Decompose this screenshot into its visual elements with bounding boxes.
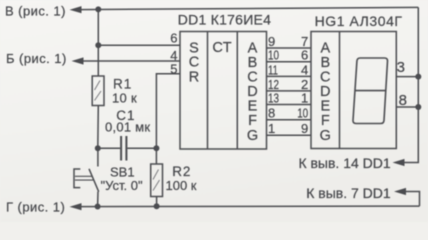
svg-text:R2: R2 [172, 164, 191, 179]
wire G bus DD1.1 to HG1.9 [267, 134, 312, 136]
pin A of HG1 [320, 40, 330, 56]
node junction R2 on G-bus [154, 203, 160, 209]
svg-text:В (рис. 1): В (рис. 1) [5, 3, 66, 18]
svg-text:CT: CT [212, 40, 231, 56]
node junction S-row [95, 42, 101, 48]
pin B of HG1 [320, 55, 330, 71]
arrow to K vyv 14 DD1 [393, 159, 405, 166]
svg-text:E: E [248, 99, 258, 115]
svg-text:Г (рис. 1): Г (рис. 1) [6, 200, 65, 215]
svg-text:7: 7 [301, 34, 308, 49]
label К выв. 7 DD1 [306, 185, 391, 201]
arrow to Г (ris.1) [70, 203, 82, 210]
wire S-row to DD1 pin 6 [98, 44, 180, 46]
value 0,01 мк [105, 120, 150, 135]
pin 5 of DD1 [170, 61, 177, 76]
svg-text:E: E [320, 99, 330, 115]
pin 10 of HG1 [297, 106, 308, 121]
wire right rail down to K vyv 14 [404, 7, 418, 162]
pin 6 of HG1 [301, 48, 308, 63]
svg-text:C: C [189, 54, 199, 70]
pin 9 of DD1 [268, 34, 275, 49]
wire HG1 pin 8 to rail [397, 106, 419, 108]
svg-text:1: 1 [268, 121, 275, 136]
pin 2 of HG1 [301, 77, 308, 92]
wire B bus DD1.10 to HG1.6 [267, 61, 312, 63]
resistor R2 [151, 164, 163, 197]
pin C of DD1 [247, 70, 257, 86]
value "Уст. 0" [101, 178, 143, 193]
svg-text:5: 5 [170, 61, 177, 76]
node junction top at x98 [95, 6, 101, 12]
svg-text:F: F [248, 113, 257, 129]
svg-text:HG1 АЛ304Г: HG1 АЛ304Г [315, 13, 403, 29]
pin 8 of DD1 [268, 106, 275, 121]
pin 1 of DD1 [268, 121, 275, 136]
pin G of DD1 [247, 128, 258, 144]
svg-text:К выв. 14 DD1: К выв. 14 DD1 [298, 155, 390, 171]
svg-text:A: A [248, 40, 258, 56]
wire C1 left lead [98, 147, 120, 149]
label DD1 К176ИЕ4 [178, 12, 271, 28]
pin F of HG1 [321, 113, 330, 129]
node label Г (рис. 1) [6, 200, 65, 215]
svg-text:G: G [247, 128, 258, 144]
wire vertical x98 down to R1 [97, 45, 99, 76]
pin 8 of HG1 [399, 92, 407, 109]
arrow to K vyv 7 DD1 [394, 188, 406, 195]
svg-text:8: 8 [399, 92, 407, 109]
svg-text:10: 10 [297, 106, 308, 121]
wire top bus B to right rail [81, 7, 418, 9]
pin 6 of DD1 [170, 31, 177, 46]
capacitor C1 [121, 136, 126, 161]
node junction pin8 on rail [415, 104, 421, 110]
pin D of HG1 [320, 84, 330, 100]
pin 13 of DD1 [268, 90, 279, 105]
svg-text:9: 9 [268, 34, 275, 49]
pin A of DD1 [248, 40, 258, 56]
pin S of DD1 [189, 41, 199, 57]
svg-text:10 к: 10 к [112, 90, 137, 105]
wire junction down to R2 [155, 148, 157, 164]
pin C of DD1 [189, 54, 199, 70]
switch SB1 [74, 148, 99, 206]
svg-text:Б (рис. 1): Б (рис. 1) [6, 51, 67, 66]
svg-text:B: B [248, 55, 258, 71]
svg-text:G: G [320, 128, 331, 144]
pin 9 of HG1 [301, 121, 308, 136]
pin 7 of HG1 [301, 34, 308, 49]
label SB1 [110, 165, 135, 180]
pin 12 of DD1 [268, 77, 279, 92]
pin F of DD1 [248, 113, 257, 129]
svg-text:9: 9 [301, 121, 308, 136]
op-amp HG1 box [311, 32, 396, 149]
svg-text:C: C [247, 70, 257, 86]
wire C bus DD1.11 to HG1.4 [267, 75, 312, 77]
wire HG1 pin 3 to rail [397, 76, 419, 78]
svg-text:R: R [189, 70, 199, 86]
wire A bus DD1.9 to HG1.7 [267, 47, 312, 49]
svg-text:B: B [320, 55, 330, 71]
pin 10 of DD1 [268, 48, 279, 63]
pin B of DD1 [248, 55, 258, 71]
svg-text:F: F [321, 113, 330, 129]
svg-text:3: 3 [397, 59, 405, 76]
svg-text:DD1 К176ИЕ4: DD1 К176ИЕ4 [178, 12, 271, 28]
wire K vyv 7 to bottom bus [406, 192, 420, 207]
node junction C1 left [95, 145, 101, 151]
label R1 [113, 77, 132, 92]
pin D of DD1 [247, 84, 257, 100]
node junction pin3 on rail [415, 74, 421, 80]
pin 3 of HG1 [397, 59, 405, 76]
pin 4 of DD1 [170, 48, 177, 63]
node junction SB1 on G-bus [95, 204, 101, 210]
wire vertical x98 from top bus to S-row [97, 9, 99, 45]
svg-text:10: 10 [268, 48, 279, 63]
svg-text:A: A [320, 40, 330, 56]
label R2 [172, 164, 191, 179]
wire E bus DD1.13 to HG1.1 [267, 104, 312, 106]
wire B-row (Б) to DD1 pin 4 [83, 60, 181, 62]
node label В (рис. 1) [5, 3, 66, 18]
arrow to B (ris.1) [70, 6, 82, 13]
pin 1 of HG1 [301, 90, 308, 105]
svg-text:6: 6 [170, 31, 177, 46]
label HG1 АЛ304Г [315, 13, 403, 29]
arrow to Б (ris.1) [72, 57, 84, 64]
label CT [212, 40, 231, 56]
wire D bus DD1.12 to HG1.2 [267, 90, 312, 92]
wire R2 bottom to G-bus [156, 197, 158, 207]
wire C1 right lead [127, 147, 156, 149]
svg-text:8: 8 [268, 106, 275, 121]
wire R1 bottom to C1 junction [97, 106, 100, 149]
resistor R1 [92, 76, 104, 106]
value 100 к [166, 178, 197, 193]
wire bottom bus G [81, 205, 420, 208]
svg-text:13: 13 [268, 90, 279, 105]
pin E of HG1 [320, 99, 330, 115]
svg-text:0,01 мк: 0,01 мк [105, 120, 150, 135]
7-segment glyph of HG1 [353, 58, 388, 124]
pin G of HG1 [320, 128, 331, 144]
node label Б (рис. 1) [6, 51, 67, 66]
wire F bus DD1.8 to HG1.10 [267, 119, 312, 121]
svg-text:К выв. 7 DD1: К выв. 7 DD1 [306, 185, 391, 201]
svg-text:100 к: 100 к [166, 178, 197, 193]
pin 11 of DD1 [268, 62, 278, 77]
pin 4 of HG1 [301, 62, 308, 77]
svg-text:4: 4 [301, 62, 308, 77]
wire DD1 pin 5 to junction [156, 74, 180, 148]
svg-text:"Уст. 0": "Уст. 0" [101, 178, 143, 193]
value 10 к [112, 90, 137, 105]
svg-text:6: 6 [301, 48, 308, 63]
svg-text:11: 11 [268, 62, 278, 77]
label К выв. 14 DD1 [298, 155, 390, 171]
pin E of DD1 [248, 99, 258, 115]
op-amp DD1 box [180, 32, 267, 150]
node junction C1 right [153, 145, 159, 151]
svg-text:1: 1 [301, 90, 308, 105]
svg-text:C: C [320, 70, 330, 86]
pin C of HG1 [320, 70, 330, 86]
label C1 [116, 108, 135, 123]
pin R of DD1 [189, 70, 199, 86]
